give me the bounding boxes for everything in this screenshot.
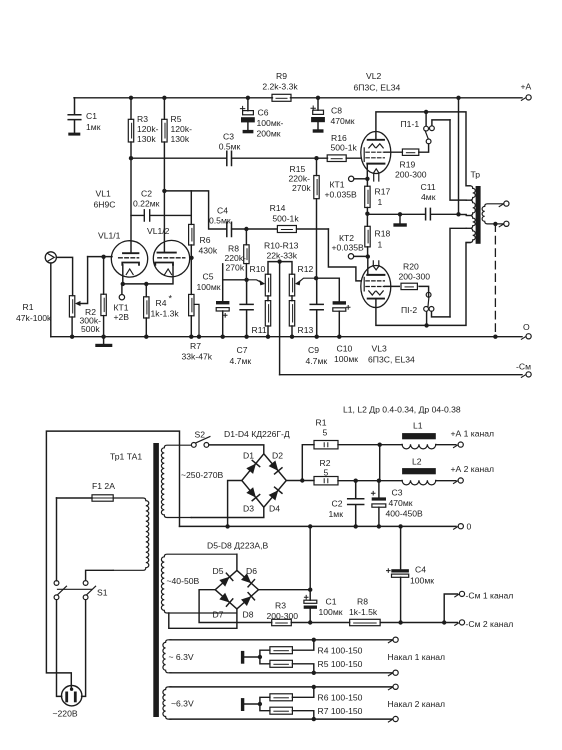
svg-text:~ 6.3V: ~ 6.3V xyxy=(169,652,194,662)
svg-text:R7: R7 xyxy=(190,341,201,351)
svg-text:470мк: 470мк xyxy=(389,498,413,508)
svg-text:1k-1.3k: 1k-1.3k xyxy=(151,309,180,319)
svg-text:2.2k-3.3k: 2.2k-3.3k xyxy=(262,82,298,92)
svg-text:Накал 2 канал: Накал 2 канал xyxy=(388,699,446,709)
svg-text:100мк: 100мк xyxy=(410,576,434,586)
diode D1 xyxy=(246,460,260,474)
terminal +A 1 kanal xyxy=(454,445,458,447)
transformer Tp primary winding (4 sections, UL taps) xyxy=(466,186,475,200)
tube VL3 xyxy=(361,266,391,308)
resistor R2 (psu) xyxy=(314,477,338,485)
wire bias feed to -Cm xyxy=(279,262,281,375)
wire R12 wiper xyxy=(298,278,316,283)
diode D7 xyxy=(219,592,233,606)
svg-text:C8: C8 xyxy=(331,106,342,116)
svg-text:R9: R9 xyxy=(276,71,287,81)
capacitor C10 electrolytic xyxy=(333,301,346,304)
diode D5 xyxy=(219,573,233,587)
svg-text:200-300: 200-300 xyxy=(267,611,299,621)
svg-text:C3: C3 xyxy=(223,132,234,142)
wire VL1/2 grid node xyxy=(190,257,192,259)
svg-text:C4: C4 xyxy=(217,206,228,216)
svg-text:R14: R14 xyxy=(270,203,286,213)
divider top wire xyxy=(268,262,292,275)
svg-text:+А 1 канал: +А 1 канал xyxy=(451,429,495,439)
capacitor C2 xyxy=(131,210,191,221)
svg-text:100мк: 100мк xyxy=(319,607,343,617)
terminal nakal 1a xyxy=(388,640,392,642)
svg-text:-См 2 канал: -См 2 канал xyxy=(466,619,514,629)
svg-text:C5: C5 xyxy=(203,272,214,282)
svg-text:100мк: 100мк xyxy=(197,282,221,292)
svg-text:L1: L1 xyxy=(413,421,423,431)
rectifier bridge D1-D4 frame xyxy=(242,454,286,507)
trimmer R7 xyxy=(190,258,192,337)
svg-text:КТ2: КТ2 xyxy=(339,233,354,243)
wire R1-R2 link xyxy=(379,445,381,481)
terminal speaker 1 xyxy=(499,204,503,206)
capacitor C9 xyxy=(310,278,323,337)
svg-text:R8: R8 xyxy=(228,244,239,254)
wire mains earth loop xyxy=(46,431,179,688)
svg-text:0.22мк: 0.22мк xyxy=(133,199,160,209)
wire jack ground xyxy=(50,263,52,337)
resistor R9 xyxy=(272,94,291,101)
ground under R2 xyxy=(103,337,105,344)
svg-text:22k-33k: 22k-33k xyxy=(267,251,298,261)
svg-text:1: 1 xyxy=(378,197,383,207)
wire VL1/1 plate xyxy=(130,158,132,253)
svg-text:D1: D1 xyxy=(243,451,254,461)
svg-text:500k: 500k xyxy=(81,324,100,334)
wire VL1/2 plate lead xyxy=(163,191,165,253)
capacitor C4 (psu) xyxy=(400,526,402,569)
svg-text:D6: D6 xyxy=(246,566,257,576)
wire -Cm 1 branch xyxy=(444,594,457,623)
resistor R12 xyxy=(289,274,294,296)
svg-text:VL3: VL3 xyxy=(372,344,388,354)
resistor R4 xyxy=(145,284,147,337)
svg-text:R15: R15 xyxy=(290,164,306,174)
tube VL2 xyxy=(361,132,391,174)
diode D8 xyxy=(241,593,255,607)
capacitor C4 xyxy=(227,222,232,236)
svg-text:C2: C2 xyxy=(141,189,152,199)
svg-text:1k-1.5k: 1k-1.5k xyxy=(349,607,378,617)
svg-text:C1: C1 xyxy=(86,111,97,121)
svg-text:+А: +А xyxy=(521,82,532,92)
svg-text:200мк: 200мк xyxy=(257,129,281,139)
svg-text:6П3С, EL34: 6П3С, EL34 xyxy=(368,355,415,365)
wire VL3 grid path xyxy=(328,229,361,281)
resistor R6 xyxy=(190,191,192,258)
wire feedback dashed xyxy=(494,224,496,337)
resistor R16 xyxy=(327,155,346,162)
wire plate VL1/2 to C4 xyxy=(164,191,226,229)
svg-text:6П3С, EL34: 6П3С, EL34 xyxy=(354,83,401,93)
svg-text:5: 5 xyxy=(323,428,328,438)
wire R10 wiper xyxy=(247,280,262,283)
svg-text:Накал 1 канал: Накал 1 канал xyxy=(388,652,446,662)
svg-text:D5: D5 xyxy=(213,566,224,576)
svg-text:~220В: ~220В xyxy=(53,709,78,719)
tube VL1/2 xyxy=(153,240,189,276)
svg-text:R3: R3 xyxy=(137,114,148,124)
svg-text:~250-270В: ~250-270В xyxy=(181,470,224,480)
wire VL1 cathodes xyxy=(123,265,173,284)
svg-text:200-300: 200-300 xyxy=(399,272,431,282)
svg-text:VL1: VL1 xyxy=(96,189,112,199)
svg-text:D1-D4 КД226Г-Д: D1-D4 КД226Г-Д xyxy=(224,429,290,439)
wire bridge minus xyxy=(228,481,242,527)
svg-text:S1: S1 xyxy=(97,588,108,598)
svg-text:5: 5 xyxy=(324,468,329,478)
svg-text:D5-D8 Д223А,В: D5-D8 Д223А,В xyxy=(207,541,268,551)
wire VL2 anode xyxy=(376,112,470,186)
resistor R3 (psu) xyxy=(272,619,292,625)
svg-text:R17: R17 xyxy=(375,187,391,197)
diode D2 xyxy=(268,460,282,474)
svg-text:100мк-: 100мк- xyxy=(257,118,284,128)
potentiometer R1 xyxy=(69,296,74,317)
resistor R18 xyxy=(366,214,368,256)
svg-text:120k-: 120k- xyxy=(171,124,193,134)
terminal -Cm 1 kanal xyxy=(455,595,459,597)
transformer Tp1 HV winding xyxy=(161,445,191,517)
wire cathode mid node xyxy=(365,212,369,216)
svg-text:R10: R10 xyxy=(250,264,266,274)
wire +A supply rail xyxy=(74,97,522,99)
svg-text:R4 100-150: R4 100-150 xyxy=(318,646,363,656)
svg-text:ПІ-2: ПІ-2 xyxy=(401,305,417,315)
svg-text:500-1k: 500-1k xyxy=(331,143,358,153)
input connector X1 xyxy=(45,252,56,263)
svg-text:О: О xyxy=(523,322,530,332)
svg-text:КТ1: КТ1 xyxy=(330,180,345,190)
resistor R17 xyxy=(366,179,368,215)
transformer Tp core xyxy=(476,186,481,244)
capacitor C1 xyxy=(68,98,81,133)
svg-text:47k-100k: 47k-100k xyxy=(16,313,52,323)
svg-text:R18: R18 xyxy=(375,229,391,239)
svg-text:33k-47k: 33k-47k xyxy=(182,352,213,362)
svg-text:1мк: 1мк xyxy=(329,509,344,519)
svg-text:*: * xyxy=(169,294,173,304)
svg-text:4.7мк: 4.7мк xyxy=(306,356,328,366)
transformer Tp1 primary winding xyxy=(113,498,149,570)
svg-text:C1: C1 xyxy=(326,597,337,607)
terminal +A 2 kanal xyxy=(454,481,458,483)
svg-text:R5: R5 xyxy=(171,114,182,124)
resistor R1 (psu) xyxy=(314,441,338,449)
wire center tap xyxy=(459,214,467,216)
capacitor C5 electrolytic xyxy=(222,264,224,337)
svg-text:130k: 130k xyxy=(171,134,190,144)
tube VL1/1 xyxy=(111,241,147,277)
svg-text:R13: R13 xyxy=(298,325,314,335)
switch P1-2 xyxy=(426,311,428,325)
fuse F1 xyxy=(57,497,93,499)
svg-text:1мк: 1мк xyxy=(86,122,101,132)
svg-text:R2: R2 xyxy=(320,458,331,468)
resistor R3 xyxy=(130,98,132,158)
capacitor C6 electrolytic xyxy=(247,98,249,130)
svg-text:R1: R1 xyxy=(23,302,34,312)
svg-text:R16: R16 xyxy=(331,133,347,143)
test point KT2 xyxy=(348,254,353,259)
choke L2 xyxy=(402,468,436,474)
svg-text:130k: 130k xyxy=(137,134,156,144)
svg-text:~40-50В: ~40-50В xyxy=(167,576,200,586)
diode D4 xyxy=(268,487,282,501)
capacitor C3 (psu) xyxy=(378,481,380,498)
svg-text:C11: C11 xyxy=(421,182,436,192)
svg-text:270k: 270k xyxy=(226,263,245,273)
svg-text:C10: C10 xyxy=(337,344,353,354)
transformer Tp secondary winding xyxy=(482,204,504,224)
svg-text:R19: R19 xyxy=(400,160,416,170)
svg-text:Тр: Тр xyxy=(471,170,481,180)
wire bias minus rail xyxy=(199,590,457,623)
resistor R13 xyxy=(291,296,293,337)
wire 0V rail xyxy=(180,525,457,527)
svg-text:270k: 270k xyxy=(292,183,311,193)
svg-text:F1 2A: F1 2A xyxy=(92,481,115,491)
terminal speaker 2 xyxy=(499,224,503,226)
svg-text:R5 100-150: R5 100-150 xyxy=(318,659,363,669)
capacitor C3 xyxy=(227,151,232,165)
wire UL tap 2 to P1-2 xyxy=(450,228,466,317)
resistor R14 xyxy=(246,228,328,230)
svg-text:4мк: 4мк xyxy=(421,192,436,202)
svg-text:VL1/2: VL1/2 xyxy=(147,226,170,236)
svg-text:430k: 430k xyxy=(199,246,218,256)
switch S1 xyxy=(54,581,59,586)
svg-text:R7 100-150: R7 100-150 xyxy=(318,706,363,716)
wire grid VL1/1 xyxy=(88,256,112,258)
terminal nakal 2a xyxy=(388,687,392,689)
svg-text:470мк: 470мк xyxy=(331,116,355,126)
svg-text:П1-1: П1-1 xyxy=(401,119,420,129)
svg-text:R6 100-150: R6 100-150 xyxy=(318,693,363,703)
capacitor C7 xyxy=(240,280,253,337)
heater winding 2 (~6.3V) xyxy=(170,687,393,719)
wire bottom rail xyxy=(51,336,522,338)
terminal 0 (top section) xyxy=(521,337,525,339)
svg-text:D4: D4 xyxy=(269,504,280,514)
switch P1-1 xyxy=(425,112,427,126)
wire -Cm rail xyxy=(280,374,522,376)
switch S2 xyxy=(191,443,196,448)
wire R8 bottom node xyxy=(223,279,247,281)
svg-text:-См: -См xyxy=(516,362,531,372)
svg-text:R4: R4 xyxy=(156,298,167,308)
svg-text:R8: R8 xyxy=(357,597,368,607)
svg-text:+0.035В: +0.035В xyxy=(325,190,358,200)
svg-text:R20: R20 xyxy=(403,262,419,272)
ground at cathode node xyxy=(399,214,401,223)
svg-text:-См 1 канал: -См 1 канал xyxy=(466,591,514,601)
wire UL tap 1 to P1-1 xyxy=(450,120,466,200)
svg-text:D2: D2 xyxy=(272,451,283,461)
svg-text:VL2: VL2 xyxy=(366,71,382,81)
terminal 0 (psu) xyxy=(454,527,458,529)
svg-text:0.5мк: 0.5мк xyxy=(209,216,231,226)
svg-text:220k-: 220k- xyxy=(289,174,311,184)
svg-text:220k-: 220k- xyxy=(225,253,247,263)
svg-text:S2: S2 xyxy=(195,430,206,440)
svg-text:120k-: 120k- xyxy=(137,124,159,134)
svg-text:200-300: 200-300 xyxy=(395,170,427,180)
svg-text:6Н9С: 6Н9С xyxy=(94,200,116,210)
svg-text:400-450В: 400-450В xyxy=(386,509,424,519)
svg-text:1: 1 xyxy=(378,240,383,250)
svg-text:R6: R6 xyxy=(200,235,211,245)
svg-text:C6: C6 xyxy=(258,108,269,118)
wire grid bias VL3 node xyxy=(316,278,339,301)
wire bridge plus xyxy=(286,445,314,481)
svg-text:R12: R12 xyxy=(298,264,314,274)
svg-text:R10-R13: R10-R13 xyxy=(264,241,299,251)
diode D6 xyxy=(241,573,255,587)
svg-text:L2: L2 xyxy=(412,457,422,467)
wire VL3 anode xyxy=(376,243,470,326)
svg-text:КТ1: КТ1 xyxy=(114,303,129,313)
svg-text:C9: C9 xyxy=(308,345,319,355)
choke L1 xyxy=(402,433,436,439)
wire bias plus xyxy=(259,526,311,600)
svg-text:100мк: 100мк xyxy=(334,354,358,364)
svg-text:4.7мк: 4.7мк xyxy=(230,356,252,366)
svg-text:500-1k: 500-1k xyxy=(272,214,299,224)
svg-text:D8: D8 xyxy=(243,610,254,620)
test point KT1 (+2B) xyxy=(121,284,123,295)
wire VL2 cathode xyxy=(366,164,368,179)
svg-text:C4: C4 xyxy=(415,565,426,575)
wire VL3 cathode xyxy=(367,257,369,275)
transformer Tp1 bias winding xyxy=(161,554,237,613)
resistor R8 (psu) xyxy=(350,619,381,625)
svg-text:0.5мк: 0.5мк xyxy=(219,142,241,152)
svg-text:0: 0 xyxy=(467,522,472,532)
capacitor C8 electrolytic xyxy=(317,98,319,130)
svg-text:D3: D3 xyxy=(243,504,254,514)
terminal nakal 1b xyxy=(388,673,392,675)
terminal nakal 2b xyxy=(388,720,392,722)
svg-text:R11: R11 xyxy=(252,325,267,335)
svg-text:R1: R1 xyxy=(316,418,327,428)
capacitor C11 xyxy=(426,208,431,219)
wire interstage node xyxy=(131,157,361,159)
svg-text:D7: D7 xyxy=(213,610,224,620)
svg-text:C3: C3 xyxy=(392,488,403,498)
resistor R20 xyxy=(385,286,429,297)
resistor R5 xyxy=(163,98,165,191)
svg-text:C7: C7 xyxy=(237,345,248,355)
svg-text:C2: C2 xyxy=(332,499,343,509)
resistor R19 xyxy=(385,144,429,152)
resistor R10 xyxy=(265,274,270,296)
resistor R2 xyxy=(103,257,105,337)
test point KT1 (cathode VL2) xyxy=(349,176,354,181)
wire B+ drop xyxy=(458,98,460,215)
svg-text:L1, L2 Др 0.4-0.34, Др 04-0: L1, L2 Др 0.4-0.34, Др 04-0.38 xyxy=(343,405,461,415)
resistor R8 xyxy=(245,229,247,280)
svg-text:~6.3V: ~6.3V xyxy=(171,699,194,709)
diode D3 xyxy=(246,487,260,501)
svg-text:+0.035В: +0.035В xyxy=(332,243,365,253)
resistor R11 xyxy=(267,296,269,337)
mains plug X2 xyxy=(61,686,81,706)
transformer Tp1 core xyxy=(153,443,159,717)
rectifier bridge D5-D8 frame xyxy=(215,570,258,609)
wire input to R1 xyxy=(56,257,72,295)
capacitor C2 (psu) xyxy=(348,481,364,527)
svg-text:+А 2 канал: +А 2 канал xyxy=(451,464,495,474)
resistor R15 xyxy=(316,158,318,278)
svg-text:+2В: +2В xyxy=(114,312,130,322)
heater winding 1 (~6.3V) xyxy=(170,640,393,673)
terminal -Cm (top) xyxy=(521,375,525,377)
svg-text:VL1/1: VL1/1 xyxy=(98,231,121,241)
capacitor C1 (psu) xyxy=(304,600,317,603)
svg-text:Тр1 ТА1: Тр1 ТА1 xyxy=(110,452,142,462)
svg-text:R3: R3 xyxy=(275,601,286,611)
terminal -Cm 2 kanal xyxy=(455,623,459,625)
terminal +A xyxy=(521,98,525,100)
